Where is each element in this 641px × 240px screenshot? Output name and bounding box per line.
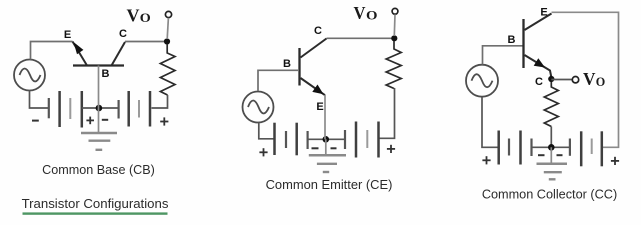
svg-text:O: O <box>596 75 606 89</box>
node <box>548 144 555 151</box>
title underline <box>23 212 168 214</box>
wire <box>482 97 499 147</box>
node <box>96 105 103 112</box>
wire <box>30 91 49 109</box>
svg-text:V: V <box>354 3 366 23</box>
wire <box>31 42 73 60</box>
ground <box>81 108 117 150</box>
wire <box>259 123 275 139</box>
label + <box>259 148 267 156</box>
transistor Q3 <box>524 14 552 78</box>
resistor R2 <box>386 41 401 89</box>
ground <box>537 147 568 179</box>
wire <box>82 107 119 109</box>
wire <box>308 138 345 140</box>
svg-text:E: E <box>540 7 547 19</box>
AC source VS1 <box>14 60 45 91</box>
node <box>391 35 397 41</box>
wire <box>327 37 395 39</box>
svg-text:C: C <box>535 76 543 88</box>
wire <box>550 127 552 148</box>
battery V4 <box>345 122 379 158</box>
wire <box>152 95 168 108</box>
AC source VS3 <box>466 65 498 97</box>
svg-text:B: B <box>283 58 291 70</box>
svg-text:B: B <box>102 68 110 80</box>
label + <box>387 145 395 153</box>
node <box>164 38 170 44</box>
label + <box>482 156 490 164</box>
transistor Q2 <box>300 39 327 96</box>
svg-text:Common Collector (CC): Common Collector (CC) <box>482 187 617 201</box>
wire <box>167 18 168 39</box>
svg-text:C: C <box>314 25 322 37</box>
svg-text:Transistor Configurations: Transistor Configurations <box>22 196 169 211</box>
svg-text:V: V <box>583 69 596 89</box>
label - <box>331 147 337 149</box>
svg-text:B: B <box>508 34 516 46</box>
wire <box>258 70 298 91</box>
svg-text:V: V <box>127 6 140 26</box>
wire <box>551 79 572 81</box>
terminal Vo <box>165 11 171 17</box>
label + <box>611 157 619 165</box>
wire <box>379 88 395 138</box>
terminal Vo <box>572 77 578 83</box>
wire emitter riser <box>324 95 326 139</box>
wire <box>532 146 571 148</box>
svg-text:C: C <box>119 28 127 40</box>
ground <box>309 139 346 172</box>
node <box>548 76 554 82</box>
battery V2 <box>119 91 150 127</box>
label - <box>538 154 545 156</box>
svg-text:Common Base (CB): Common Base (CB) <box>42 163 155 177</box>
battery V3 <box>275 123 308 156</box>
resistor R1 <box>160 44 175 95</box>
wire <box>483 46 524 65</box>
resistor R3 <box>544 82 558 127</box>
terminal Vo <box>392 8 398 14</box>
wire <box>125 41 167 43</box>
svg-text:O: O <box>140 11 151 25</box>
wire <box>393 14 396 36</box>
svg-text:O: O <box>366 8 378 22</box>
wire top <box>552 12 619 147</box>
node <box>323 136 330 143</box>
battery V6 <box>570 131 602 166</box>
svg-text:Common Emitter (CE): Common Emitter (CE) <box>266 177 393 192</box>
svg-text:E: E <box>64 29 71 41</box>
label - <box>557 154 563 156</box>
label - <box>32 120 39 122</box>
battery V1 <box>49 91 82 128</box>
label - <box>102 119 108 121</box>
label - <box>312 147 319 149</box>
svg-text:E: E <box>316 101 323 113</box>
AC source VS2 <box>243 92 274 123</box>
transistor Q1 <box>73 42 126 66</box>
label + <box>160 117 168 125</box>
battery V5 <box>499 131 532 165</box>
label + <box>86 117 94 125</box>
wire base riser <box>98 66 100 109</box>
